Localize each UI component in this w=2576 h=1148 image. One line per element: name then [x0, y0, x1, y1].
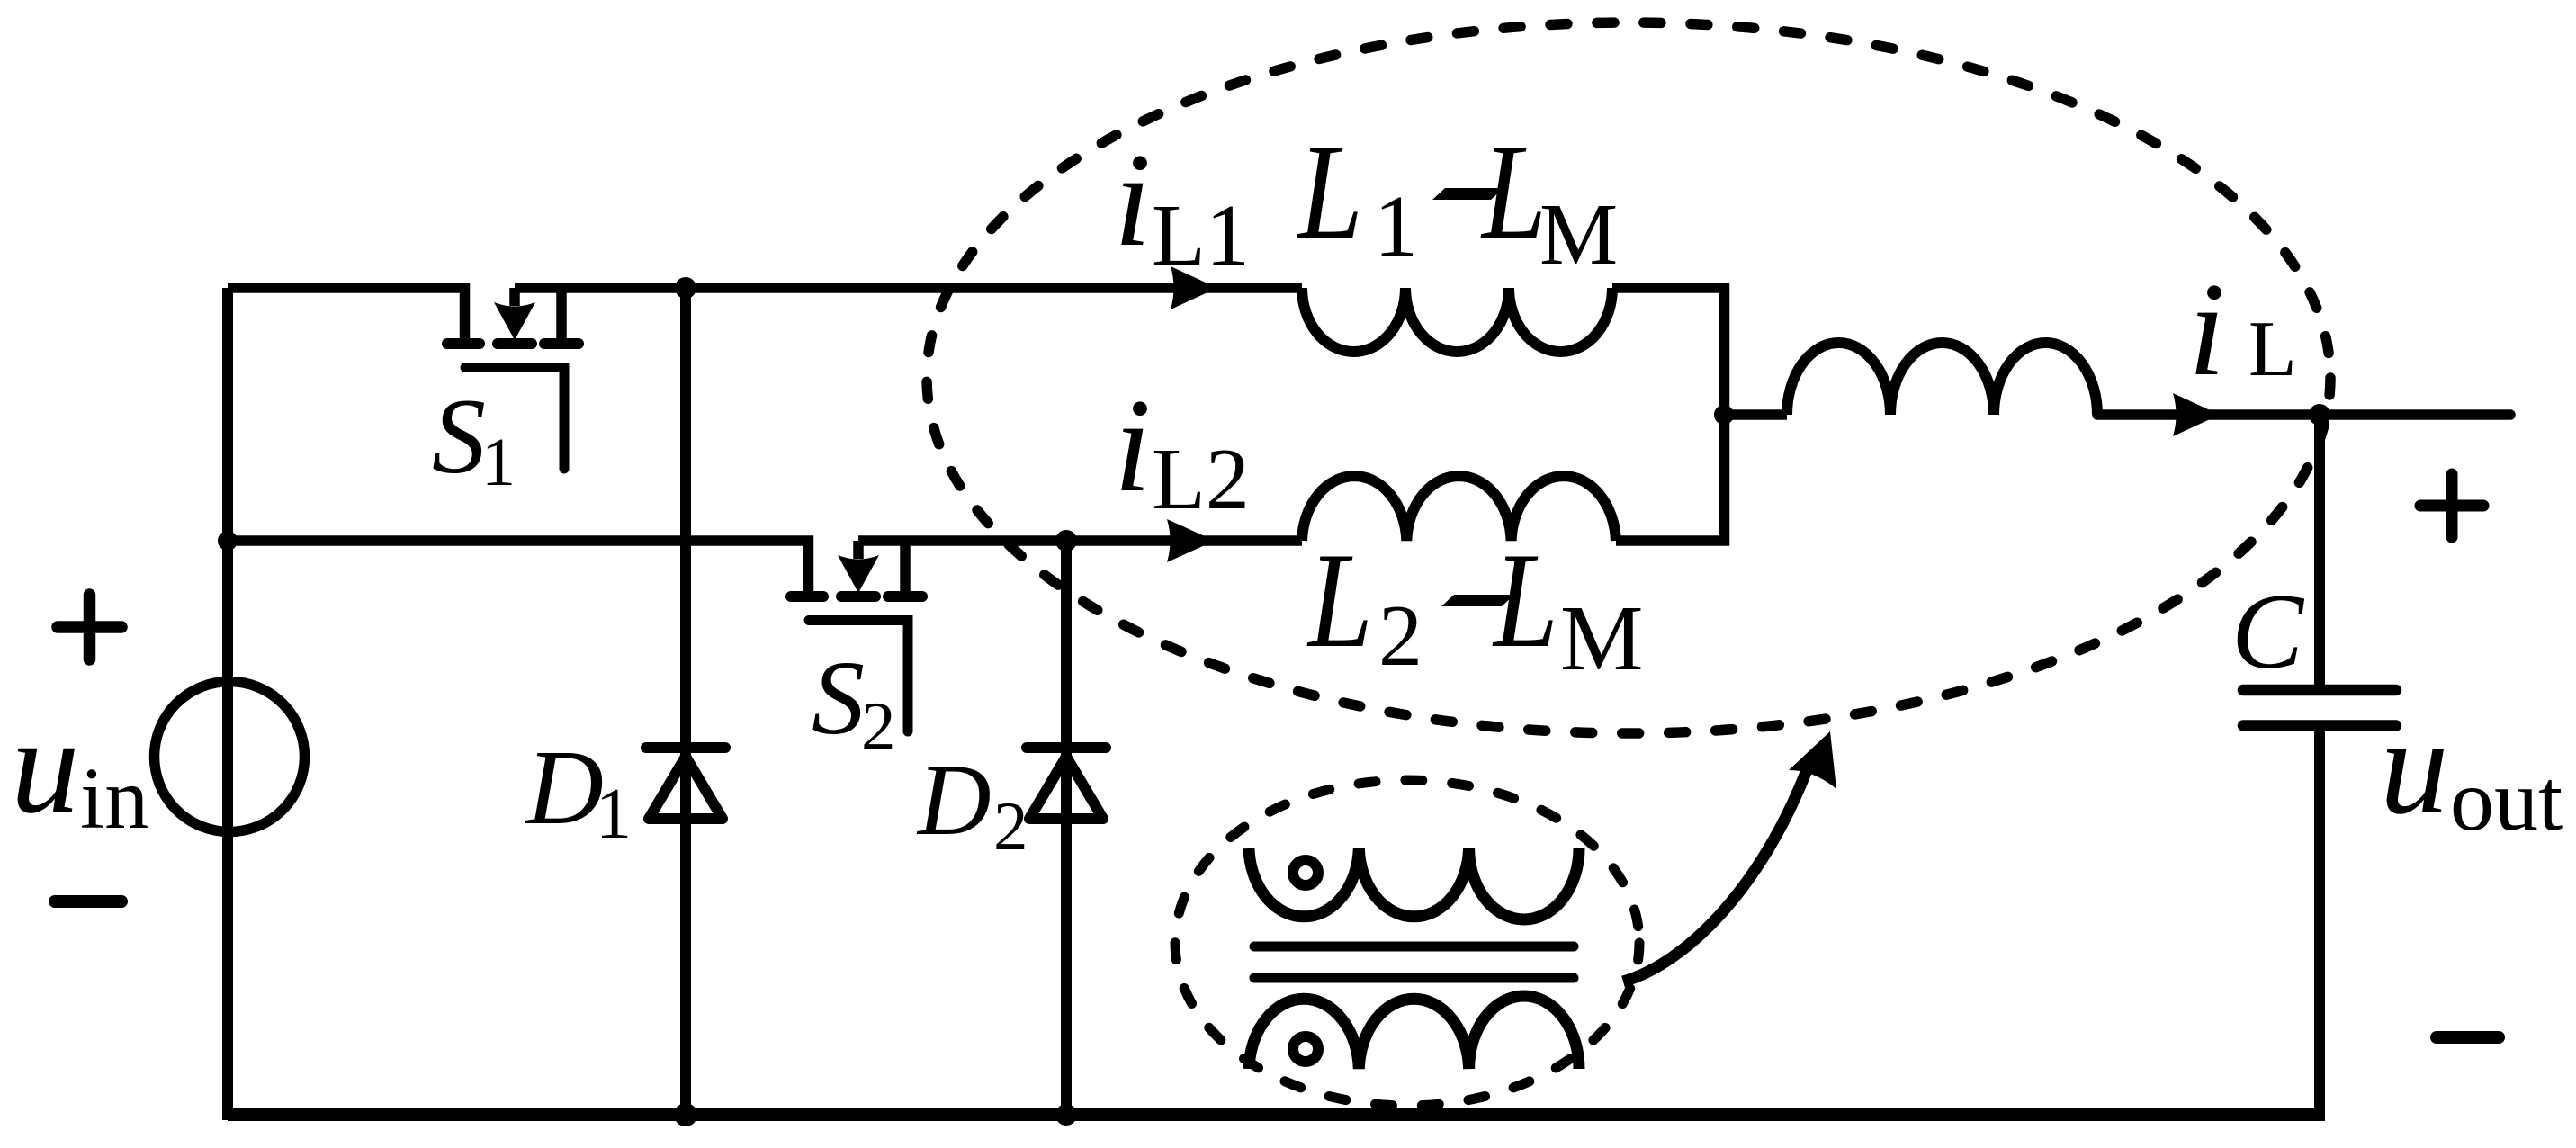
svg-text:out: out: [2450, 752, 2563, 849]
label u out: [2380, 691, 2563, 849]
wire LM lead: [1724, 409, 1787, 420]
transformer dot bottom: [1293, 1036, 1318, 1062]
transistor S1: [447, 288, 579, 469]
wire output node: [2097, 409, 2510, 420]
capacitor C: [2243, 415, 2396, 1115]
inductor L1-LM coil: [1302, 288, 1612, 352]
annotation arrow curve: [1623, 770, 1807, 982]
svg-text:C: C: [2231, 571, 2305, 691]
node: D1 / bottom rail: [674, 1103, 697, 1126]
svg-text:M: M: [1560, 587, 1643, 690]
svg-text:S: S: [812, 639, 865, 757]
svg-text:2: 2: [1378, 587, 1423, 685]
svg-text:1: 1: [1374, 178, 1418, 275]
svg-text:L: L: [2248, 306, 2297, 393]
diode D1: [646, 288, 725, 1115]
label iL1: [1114, 126, 1250, 284]
label - input: [55, 895, 121, 908]
svg-text:i: i: [1114, 372, 1151, 520]
wire left vertical input branch: [222, 288, 233, 1120]
label D1: [525, 728, 632, 854]
label + input: [58, 595, 121, 659]
node: output / C junction: [2309, 404, 2330, 426]
wire bottom rail: [228, 1108, 2325, 1121]
svg-text:i: i: [1114, 126, 1151, 274]
current arrow iL1: [1171, 266, 1217, 309]
svg-text:S: S: [432, 376, 486, 496]
inductor L2-LM coil: [1302, 476, 1616, 541]
annotation arrow head: [1789, 731, 1836, 789]
svg-text:D: D: [525, 728, 604, 847]
svg-text:2: 2: [861, 687, 896, 765]
inductor LM coil: [1787, 343, 2097, 415]
svg-text:D: D: [916, 744, 992, 857]
svg-text:L2: L2: [1152, 431, 1250, 528]
label L2-LM: [1306, 524, 1643, 690]
svg-text:u: u: [2380, 691, 2449, 843]
svg-text:L1: L1: [1152, 187, 1250, 284]
wire top from S1 source to L1: [515, 283, 1302, 293]
wire second rail from S2 source to L2: [858, 535, 1302, 546]
svg-text:L: L: [1297, 115, 1363, 267]
wire from L1 to right vertical and down to L2: [1612, 288, 1725, 541]
wire top-left from input to S1 drain: [228, 288, 465, 338]
label iL: [2188, 256, 2297, 404]
svg-text:in: in: [80, 750, 148, 848]
node: input / wire2 junction: [218, 531, 238, 551]
current arrow iL2: [1167, 519, 1215, 562]
svg-text:1: 1: [481, 425, 516, 500]
dashed ellipse big (coupled inductor model): [927, 22, 2330, 733]
source u_in circle: [155, 682, 305, 832]
label + output: [2420, 474, 2483, 537]
transistor S2: [791, 541, 922, 731]
current arrow iL: [2173, 393, 2220, 436]
svg-text:L: L: [1306, 524, 1373, 676]
svg-text:L: L: [1480, 115, 1547, 267]
svg-text:M: M: [1539, 186, 1618, 283]
svg-text:L: L: [1492, 524, 1558, 676]
diode D2: [1027, 541, 1106, 1115]
transformer core: [1254, 946, 1574, 978]
transformer winding bottom: [1249, 996, 1579, 1069]
node: top wire / D1 junction: [675, 277, 696, 299]
label - output: [2437, 1031, 2499, 1044]
dashed ellipse small (transformer): [1175, 780, 1639, 1106]
node: D2 / bottom rail: [1055, 1104, 1077, 1126]
svg-text:i: i: [2188, 256, 2225, 404]
label S1: [432, 376, 516, 500]
wire second rail from input to S2 drain: [228, 541, 809, 591]
label u in: [11, 690, 148, 848]
label S2: [812, 639, 896, 765]
label iL2: [1114, 372, 1250, 528]
node: LM tap junction: [1714, 405, 1734, 425]
svg-text:u: u: [11, 690, 80, 842]
node: wire2 / D2 junction: [1055, 530, 1077, 552]
label L1-LM: [1297, 115, 1618, 283]
transformer winding top: [1249, 848, 1579, 919]
svg-text:1: 1: [596, 775, 632, 854]
transformer dot top: [1293, 860, 1318, 885]
svg-text:2: 2: [993, 787, 1028, 865]
label D2: [916, 744, 1028, 865]
